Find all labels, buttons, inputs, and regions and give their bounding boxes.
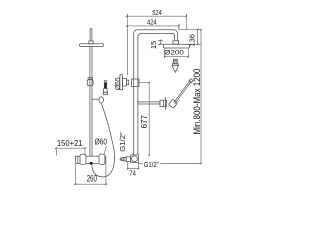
svg-text:Ø60: Ø60 <box>95 138 108 147</box>
svg-text:G1/2": G1/2" <box>118 132 127 152</box>
svg-text:G1/2": G1/2" <box>144 160 159 169</box>
svg-text:136: 136 <box>187 34 196 47</box>
svg-text:677: 677 <box>140 114 149 128</box>
svg-text:74: 74 <box>129 169 136 178</box>
svg-text:Ø200: Ø200 <box>164 50 184 57</box>
svg-text:Min.800-Max 1200: Min.800-Max 1200 <box>192 69 202 135</box>
svg-text:424: 424 <box>147 18 157 27</box>
svg-text:150+21: 150+21 <box>57 139 83 148</box>
svg-text:Ø55: Ø55 <box>113 77 122 90</box>
svg-text:260: 260 <box>87 172 97 183</box>
svg-text:15: 15 <box>149 41 158 49</box>
svg-text:524: 524 <box>152 8 162 17</box>
